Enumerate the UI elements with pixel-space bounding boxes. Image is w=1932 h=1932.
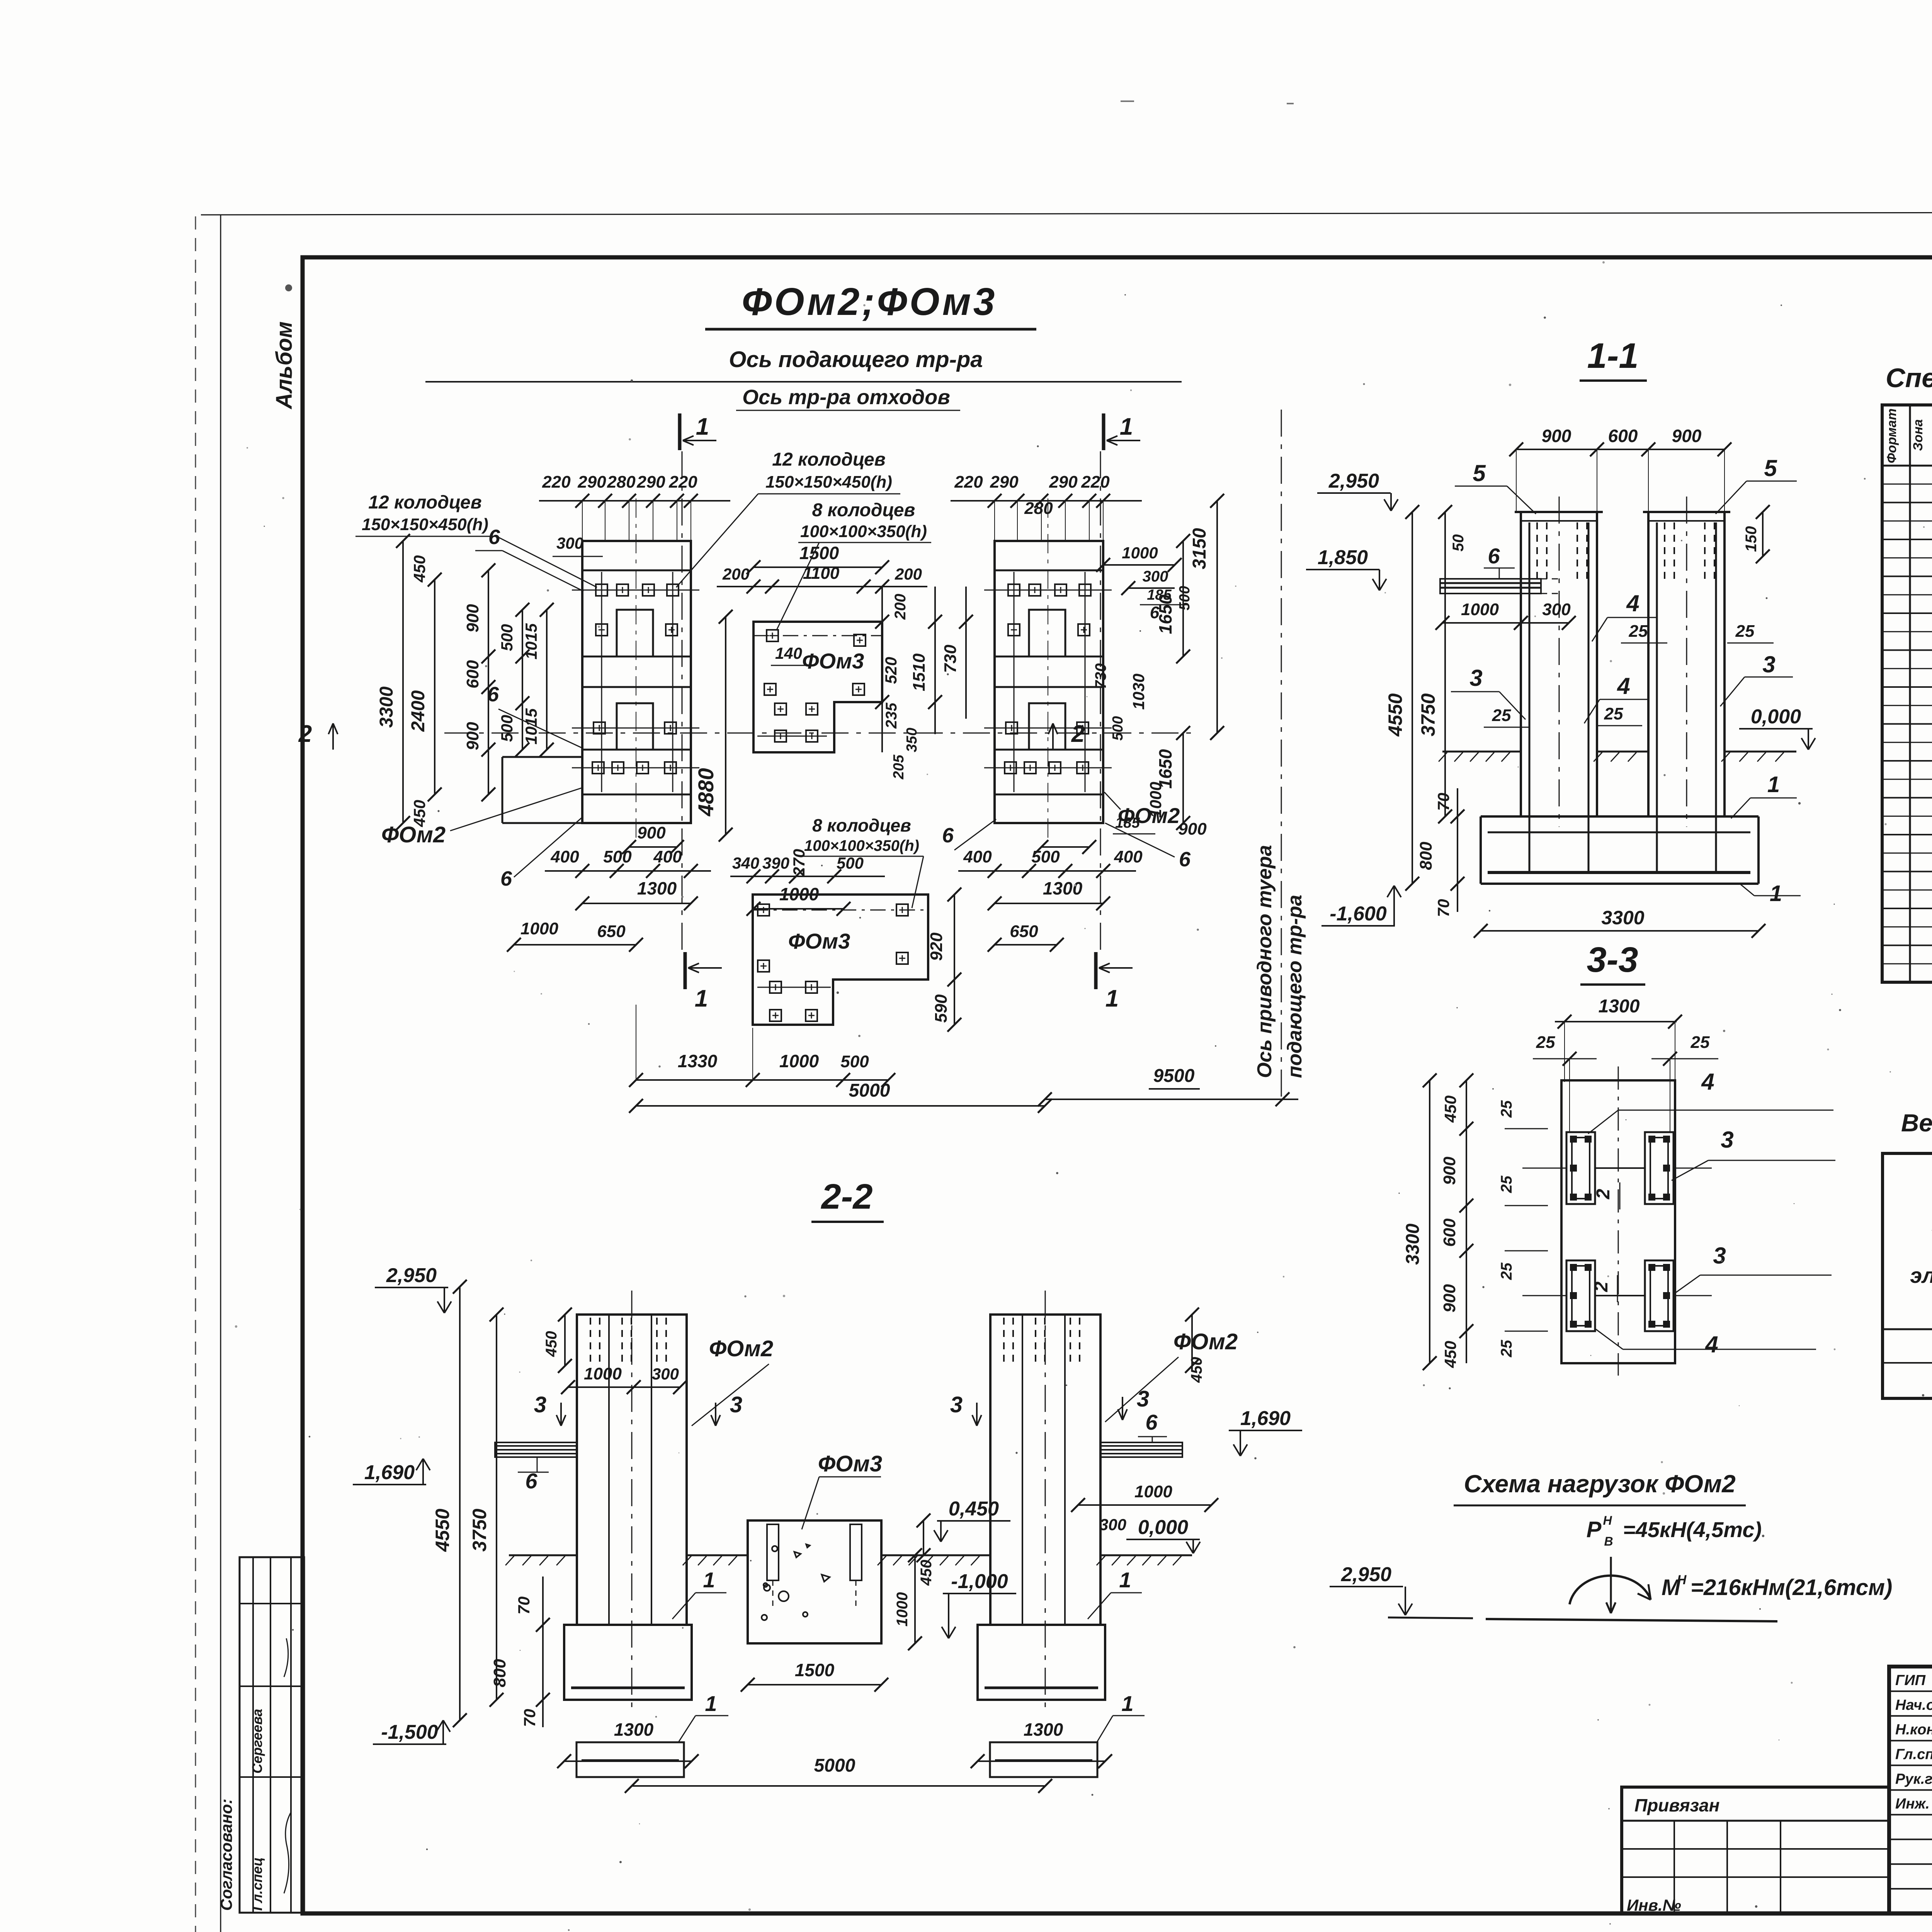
svg-text:Зона: Зона (1911, 419, 1925, 451)
svg-text:1015: 1015 (522, 708, 540, 745)
svg-text:450: 450 (1441, 1341, 1459, 1368)
svg-text:100×100×350(h): 100×100×350(h) (800, 522, 927, 541)
svg-text:500: 500 (498, 715, 516, 742)
svg-text:500: 500 (1177, 586, 1193, 610)
svg-text:3: 3 (1713, 1243, 1726, 1269)
svg-text:25: 25 (1536, 1033, 1555, 1052)
svg-text:6: 6 (1179, 848, 1191, 871)
svg-text:2,950: 2,950 (386, 1264, 437, 1287)
svg-text:25: 25 (1498, 1100, 1515, 1118)
svg-text:Схема нагрузок ФОм2: Схема нагрузок ФОм2 (1464, 1470, 1735, 1498)
svg-text:1000: 1000 (520, 919, 558, 938)
svg-text:220: 220 (954, 473, 983, 492)
svg-text:1030: 1030 (1129, 673, 1148, 709)
svg-text:200: 200 (892, 594, 909, 620)
svg-text:Формат: Формат (1884, 408, 1899, 463)
svg-text:25: 25 (1629, 622, 1648, 641)
svg-text:300: 300 (652, 1365, 679, 1383)
svg-text:600: 600 (1608, 426, 1638, 446)
svg-text:5000: 5000 (814, 1755, 855, 1776)
svg-text:1: 1 (1121, 1691, 1133, 1716)
svg-text:ФОм2: ФОм2 (1118, 803, 1180, 828)
svg-text:730: 730 (941, 645, 960, 673)
svg-text:390: 390 (762, 854, 789, 872)
svg-text:0,000: 0,000 (1138, 1516, 1188, 1539)
svg-text:300: 300 (1143, 568, 1168, 585)
svg-text:0,450: 0,450 (949, 1498, 999, 1520)
svg-text:2: 2 (1591, 1281, 1612, 1292)
svg-text:Привязан: Привязан (1634, 1795, 1719, 1815)
svg-text:=45кН(4,5тс): =45кН(4,5тс) (1623, 1517, 1762, 1542)
svg-text:900: 900 (1672, 426, 1702, 446)
svg-text:70: 70 (520, 1709, 539, 1727)
svg-text:0,000: 0,000 (1751, 706, 1801, 728)
svg-text:3: 3 (1137, 1386, 1149, 1412)
svg-text:=216кНм(21,6тсм): =216кНм(21,6тсм) (1690, 1575, 1892, 1600)
svg-text:150×150×450(h): 150×150×450(h) (765, 473, 892, 492)
svg-text:ФОм3: ФОм3 (802, 649, 864, 673)
svg-text:2,950: 2,950 (1341, 1563, 1391, 1586)
svg-text:3: 3 (1469, 665, 1482, 691)
svg-text:3150: 3150 (1189, 528, 1210, 569)
svg-text:элемента: элемента (1910, 1263, 1932, 1287)
svg-text:4: 4 (1617, 673, 1630, 699)
svg-text:150×150×450(h): 150×150×450(h) (362, 515, 488, 534)
svg-text:450: 450 (410, 555, 429, 583)
svg-text:590: 590 (932, 994, 951, 1023)
svg-text:3: 3 (730, 1392, 742, 1417)
svg-text:1000: 1000 (894, 1592, 911, 1627)
svg-text:1500: 1500 (795, 1660, 835, 1680)
svg-text:900: 900 (1440, 1156, 1459, 1185)
svg-text:400: 400 (653, 847, 682, 866)
svg-text:Гл.спец.: Гл.спец. (1895, 1747, 1932, 1763)
svg-text:Ось тр-ра отходов: Ось тр-ра отходов (742, 386, 950, 409)
svg-text:400: 400 (963, 847, 992, 866)
svg-text:1: 1 (1120, 413, 1133, 440)
svg-text:350: 350 (904, 728, 920, 752)
svg-text:650: 650 (1010, 922, 1038, 941)
svg-text:650: 650 (597, 922, 626, 941)
svg-text:140: 140 (775, 644, 802, 662)
svg-text:500: 500 (840, 1052, 869, 1071)
svg-text:1: 1 (1105, 985, 1119, 1012)
svg-text:520: 520 (882, 657, 900, 684)
svg-text:290: 290 (636, 473, 665, 492)
svg-text:ФОм2;ФОм3: ФОм2;ФОм3 (742, 280, 997, 323)
svg-text:450: 450 (543, 1331, 560, 1357)
svg-text:1330: 1330 (678, 1051, 718, 1071)
svg-text:920: 920 (927, 932, 946, 961)
svg-text:1500: 1500 (799, 543, 839, 563)
svg-text:25: 25 (1498, 1262, 1515, 1280)
svg-text:9500: 9500 (1153, 1066, 1195, 1086)
svg-text:Инж.: Инж. (1895, 1796, 1930, 1812)
svg-text:8 колодцев: 8 колодцев (812, 500, 915, 520)
svg-text:8 колодцев: 8 колодцев (812, 815, 911, 835)
svg-text:5000: 5000 (849, 1080, 890, 1101)
svg-text:В: В (1604, 1534, 1613, 1548)
svg-text:Ведомость расхода стали на од: Ведомость расхода стали на один элемент,… (1901, 1109, 1932, 1137)
svg-text:450: 450 (918, 1560, 935, 1586)
svg-text:1000: 1000 (1122, 544, 1158, 562)
svg-text:Р: Р (1587, 1517, 1602, 1542)
svg-text:900: 900 (637, 823, 666, 842)
svg-text:25: 25 (1735, 622, 1755, 641)
svg-text:-1,600: -1,600 (1330, 903, 1387, 925)
svg-text:300: 300 (1542, 600, 1571, 619)
svg-text:2: 2 (1593, 1189, 1614, 1199)
svg-text:ФОм2: ФОм2 (381, 822, 446, 847)
svg-text:100×100×350(h): 100×100×350(h) (804, 837, 919, 854)
svg-text:Н: Н (1603, 1514, 1612, 1527)
svg-text:3: 3 (1721, 1127, 1733, 1153)
svg-text:205: 205 (891, 754, 907, 779)
svg-text:800: 800 (1417, 842, 1435, 870)
svg-text:6: 6 (1150, 603, 1160, 622)
svg-text:6: 6 (1145, 1410, 1158, 1434)
svg-text:900: 900 (463, 722, 482, 750)
svg-text:50: 50 (1450, 534, 1467, 552)
svg-text:5: 5 (1764, 455, 1777, 481)
svg-text:300: 300 (1099, 1515, 1126, 1534)
svg-text:400: 400 (1114, 847, 1143, 866)
svg-text:3-3: 3-3 (1587, 940, 1638, 980)
svg-text:Сергеева: Сергеева (249, 1709, 265, 1774)
svg-text:280: 280 (1024, 499, 1053, 518)
svg-text:220: 220 (1081, 473, 1110, 492)
svg-text:70: 70 (515, 1597, 533, 1615)
svg-text:500: 500 (603, 847, 632, 866)
svg-text:200: 200 (895, 565, 922, 583)
svg-text:1: 1 (705, 1691, 717, 1716)
svg-text:70: 70 (1434, 899, 1452, 917)
svg-text:3: 3 (1762, 651, 1775, 677)
svg-text:3: 3 (950, 1392, 963, 1417)
svg-text:25: 25 (1604, 704, 1623, 723)
svg-text:3300: 3300 (376, 686, 397, 728)
svg-text:450: 450 (1441, 1095, 1459, 1123)
svg-text:1: 1 (695, 985, 708, 1012)
svg-text:70: 70 (1434, 793, 1452, 811)
svg-text:500: 500 (1110, 716, 1126, 740)
svg-text:Альбом: Альбом (272, 321, 297, 410)
svg-text:800: 800 (490, 1659, 509, 1687)
svg-text:2: 2 (298, 721, 312, 747)
svg-text:2,950: 2,950 (1328, 470, 1379, 492)
svg-text:Ось приводного туера: Ось приводного туера (1253, 845, 1276, 1078)
svg-text:730: 730 (1092, 663, 1109, 689)
svg-text:2-2: 2-2 (821, 1177, 873, 1216)
svg-text:220: 220 (542, 473, 571, 492)
svg-text:1300: 1300 (1043, 878, 1083, 898)
svg-text:280: 280 (607, 473, 636, 492)
svg-text:1100: 1100 (803, 564, 840, 583)
svg-text:900: 900 (1542, 426, 1571, 446)
svg-text:ФОм2: ФОм2 (1173, 1329, 1238, 1354)
svg-text:Согласовано:: Согласовано: (217, 1799, 235, 1911)
svg-text:1,690: 1,690 (364, 1461, 415, 1484)
svg-text:900: 900 (1440, 1284, 1459, 1313)
svg-text:1000: 1000 (779, 1051, 819, 1071)
svg-text:подающего тр-ра: подающего тр-ра (1284, 895, 1306, 1078)
svg-text:-1,500: -1,500 (381, 1721, 438, 1743)
svg-text:235: 235 (883, 702, 900, 729)
svg-text:1300: 1300 (1599, 996, 1640, 1017)
svg-text:Спецификация элементов монолит: Спецификация элементов монолитной констр… (1886, 363, 1932, 393)
svg-text:1,850: 1,850 (1318, 546, 1368, 569)
svg-text:1000: 1000 (1461, 600, 1499, 619)
svg-text:6: 6 (1488, 544, 1500, 568)
svg-text:25: 25 (1498, 1175, 1515, 1193)
svg-text:1: 1 (1770, 881, 1782, 906)
svg-text:290: 290 (577, 473, 606, 492)
svg-text:340: 340 (732, 854, 759, 872)
svg-text:5: 5 (1473, 460, 1486, 486)
svg-text:Н: Н (1677, 1573, 1687, 1587)
svg-text:3300: 3300 (1601, 907, 1644, 929)
svg-text:1015: 1015 (522, 623, 540, 660)
svg-text:290: 290 (1049, 473, 1078, 492)
svg-text:1300: 1300 (1024, 1719, 1063, 1740)
svg-text:1300: 1300 (637, 878, 677, 898)
svg-text:150: 150 (1743, 526, 1760, 552)
svg-text:ГИП: ГИП (1895, 1672, 1926, 1689)
svg-text:25: 25 (1690, 1033, 1710, 1052)
svg-text:Ось подающего тр-ра: Ось подающего тр-ра (729, 347, 983, 372)
svg-text:3: 3 (534, 1392, 546, 1417)
svg-text:1: 1 (1767, 772, 1780, 797)
svg-text:185: 185 (1147, 587, 1172, 603)
svg-text:500: 500 (498, 624, 516, 651)
svg-text:-1,000: -1,000 (951, 1570, 1008, 1593)
svg-text:290: 290 (990, 473, 1019, 492)
svg-text:500: 500 (1031, 847, 1060, 866)
svg-text:ФОм2: ФОм2 (709, 1336, 773, 1361)
svg-text:ФОм3: ФОм3 (818, 1451, 882, 1476)
svg-text:1: 1 (696, 413, 709, 440)
svg-text:900: 900 (1178, 820, 1207, 838)
svg-text:1000: 1000 (1134, 1482, 1172, 1501)
svg-text:400: 400 (550, 847, 579, 866)
svg-text:200: 200 (722, 565, 750, 583)
svg-text:Инв.№: Инв.№ (1627, 1896, 1681, 1914)
svg-text:6: 6 (500, 867, 512, 890)
svg-text:1: 1 (1119, 1568, 1131, 1592)
svg-text:1300: 1300 (614, 1719, 654, 1740)
svg-text:6: 6 (942, 824, 954, 847)
svg-text:220: 220 (668, 473, 697, 492)
svg-text:4: 4 (1626, 590, 1639, 616)
svg-text:6: 6 (487, 683, 499, 706)
svg-text:4: 4 (1701, 1069, 1714, 1095)
svg-text:600: 600 (1440, 1218, 1459, 1247)
svg-text:600: 600 (463, 660, 482, 689)
svg-text:Рук.гр: Рук.гр (1895, 1771, 1932, 1787)
svg-text:25: 25 (1498, 1340, 1515, 1357)
svg-text:Н.контр: Н.контр (1895, 1722, 1932, 1738)
svg-text:Гл.спец: Гл.спец (249, 1857, 265, 1911)
svg-text:3750: 3750 (469, 1509, 490, 1551)
svg-text:1-1: 1-1 (1587, 336, 1639, 376)
svg-text:2400: 2400 (408, 690, 429, 732)
svg-text:1510: 1510 (910, 653, 929, 691)
svg-text:4550: 4550 (1384, 693, 1406, 736)
svg-text:300: 300 (556, 534, 583, 552)
svg-text:3300: 3300 (1403, 1223, 1423, 1265)
svg-text:ФОм3: ФОм3 (788, 929, 850, 953)
svg-text:1: 1 (703, 1568, 715, 1592)
svg-text:12 колодцев: 12 колодцев (772, 449, 885, 470)
svg-text:1000: 1000 (584, 1364, 622, 1383)
svg-text:4880: 4880 (694, 768, 718, 817)
svg-text:4: 4 (1705, 1332, 1718, 1357)
svg-text:Нач.отд.: Нач.отд. (1895, 1697, 1932, 1713)
svg-text:25: 25 (1492, 706, 1511, 725)
svg-text:3750: 3750 (1417, 693, 1439, 736)
svg-text:1,690: 1,690 (1240, 1407, 1291, 1430)
svg-text:4550: 4550 (432, 1509, 453, 1552)
svg-text:12 колодцев: 12 колодцев (368, 492, 481, 513)
svg-text:900: 900 (463, 604, 482, 633)
